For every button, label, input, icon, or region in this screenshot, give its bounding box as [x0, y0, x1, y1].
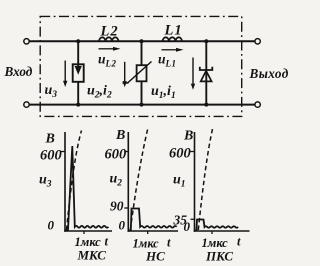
svg-text:600: 600: [40, 148, 62, 164]
inductor L2: [99, 37, 119, 41]
varistor tail: [123, 82, 129, 84]
graph3 x-axis: [194, 230, 250, 232]
arrester F1 arrow electrode: [77, 64, 79, 67]
uL1 direction arrow: [162, 49, 178, 51]
zener diode VD triangle: [201, 71, 212, 82]
svg-text:В: В: [183, 129, 193, 144]
graph1 solid curve u3 spike: [66, 146, 109, 230]
output terminal bottom: [255, 102, 260, 107]
svg-text:600: 600: [169, 146, 191, 162]
junction dot branch2 bottom: [140, 103, 144, 107]
graph1 y-axis: [64, 132, 66, 232]
svg-text:МКС: МКС: [77, 248, 107, 263]
graph3 dashed surge curve: [198, 129, 212, 230]
graph1 dashed surge curve: [67, 131, 82, 231]
svg-text:В: В: [115, 128, 125, 143]
svg-text:t: t: [237, 235, 241, 249]
svg-text:Выход: Выход: [249, 66, 289, 81]
graph1 x-axis: [64, 230, 112, 232]
device boundary frame (dash-dot): [40, 16, 242, 116]
graph3 tick 35: [191, 218, 195, 220]
graph1 tick 1mks: [83, 231, 85, 234]
graph2 tick 600: [124, 151, 128, 153]
varistor RU box: [137, 65, 147, 81]
svg-text:0: 0: [184, 219, 191, 234]
graph3 tick 600: [191, 151, 195, 153]
svg-text:L2: L2: [100, 24, 119, 40]
graph2 x-axis: [128, 230, 179, 232]
varistor diagonal stroke: [128, 62, 152, 84]
svg-text:В: В: [45, 132, 55, 147]
graph2 tick 1mks: [147, 231, 149, 234]
wire bottom rail: [29, 104, 255, 106]
uL2 direction arrow: [99, 48, 115, 50]
junction dot branch3 top: [204, 39, 208, 43]
wire branch 1 vertical: [77, 41, 79, 104]
zener diode VD cathode bar: [200, 67, 213, 70]
graph1 tick 600: [61, 151, 65, 153]
svg-text:0: 0: [119, 218, 126, 233]
junction dot branch3 bottom: [204, 103, 208, 107]
junction dot branch1 top: [76, 39, 80, 43]
svg-text:L1: L1: [164, 23, 183, 39]
arrester F1 box: [73, 64, 84, 82]
svg-text:600: 600: [105, 147, 127, 163]
svg-text:НС: НС: [145, 249, 165, 264]
graph2 dashed surge curve: [130, 129, 148, 231]
svg-text:t: t: [105, 235, 109, 249]
u1 voltage arrow: [192, 58, 194, 85]
wire branch 2 vertical: [141, 41, 143, 104]
graph2 tick 90: [124, 207, 128, 209]
u2 voltage arrow: [124, 62, 126, 83]
svg-text:t: t: [167, 236, 171, 250]
graph3 solid curve u1 step: [195, 220, 238, 231]
graph2 y-axis: [127, 132, 129, 232]
output terminal top: [255, 39, 260, 44]
graph2 solid curve u2 step: [129, 209, 177, 231]
u3 voltage arrow: [64, 61, 66, 83]
svg-text:90: 90: [110, 199, 124, 214]
input terminal bottom: [24, 102, 29, 107]
input terminal top: [24, 39, 29, 44]
graph3 tick 1mks: [211, 231, 213, 234]
wire top rail: [29, 40, 255, 42]
inductor L1: [163, 37, 183, 41]
junction dot branch2 top: [140, 39, 144, 43]
svg-text:ПКС: ПКС: [205, 249, 233, 264]
junction dot branch1 bottom: [76, 103, 80, 107]
graph3 y-axis: [194, 132, 196, 232]
svg-text:0: 0: [48, 218, 55, 233]
wire branch 3 vertical: [205, 41, 207, 104]
svg-text:Вход: Вход: [4, 64, 33, 79]
